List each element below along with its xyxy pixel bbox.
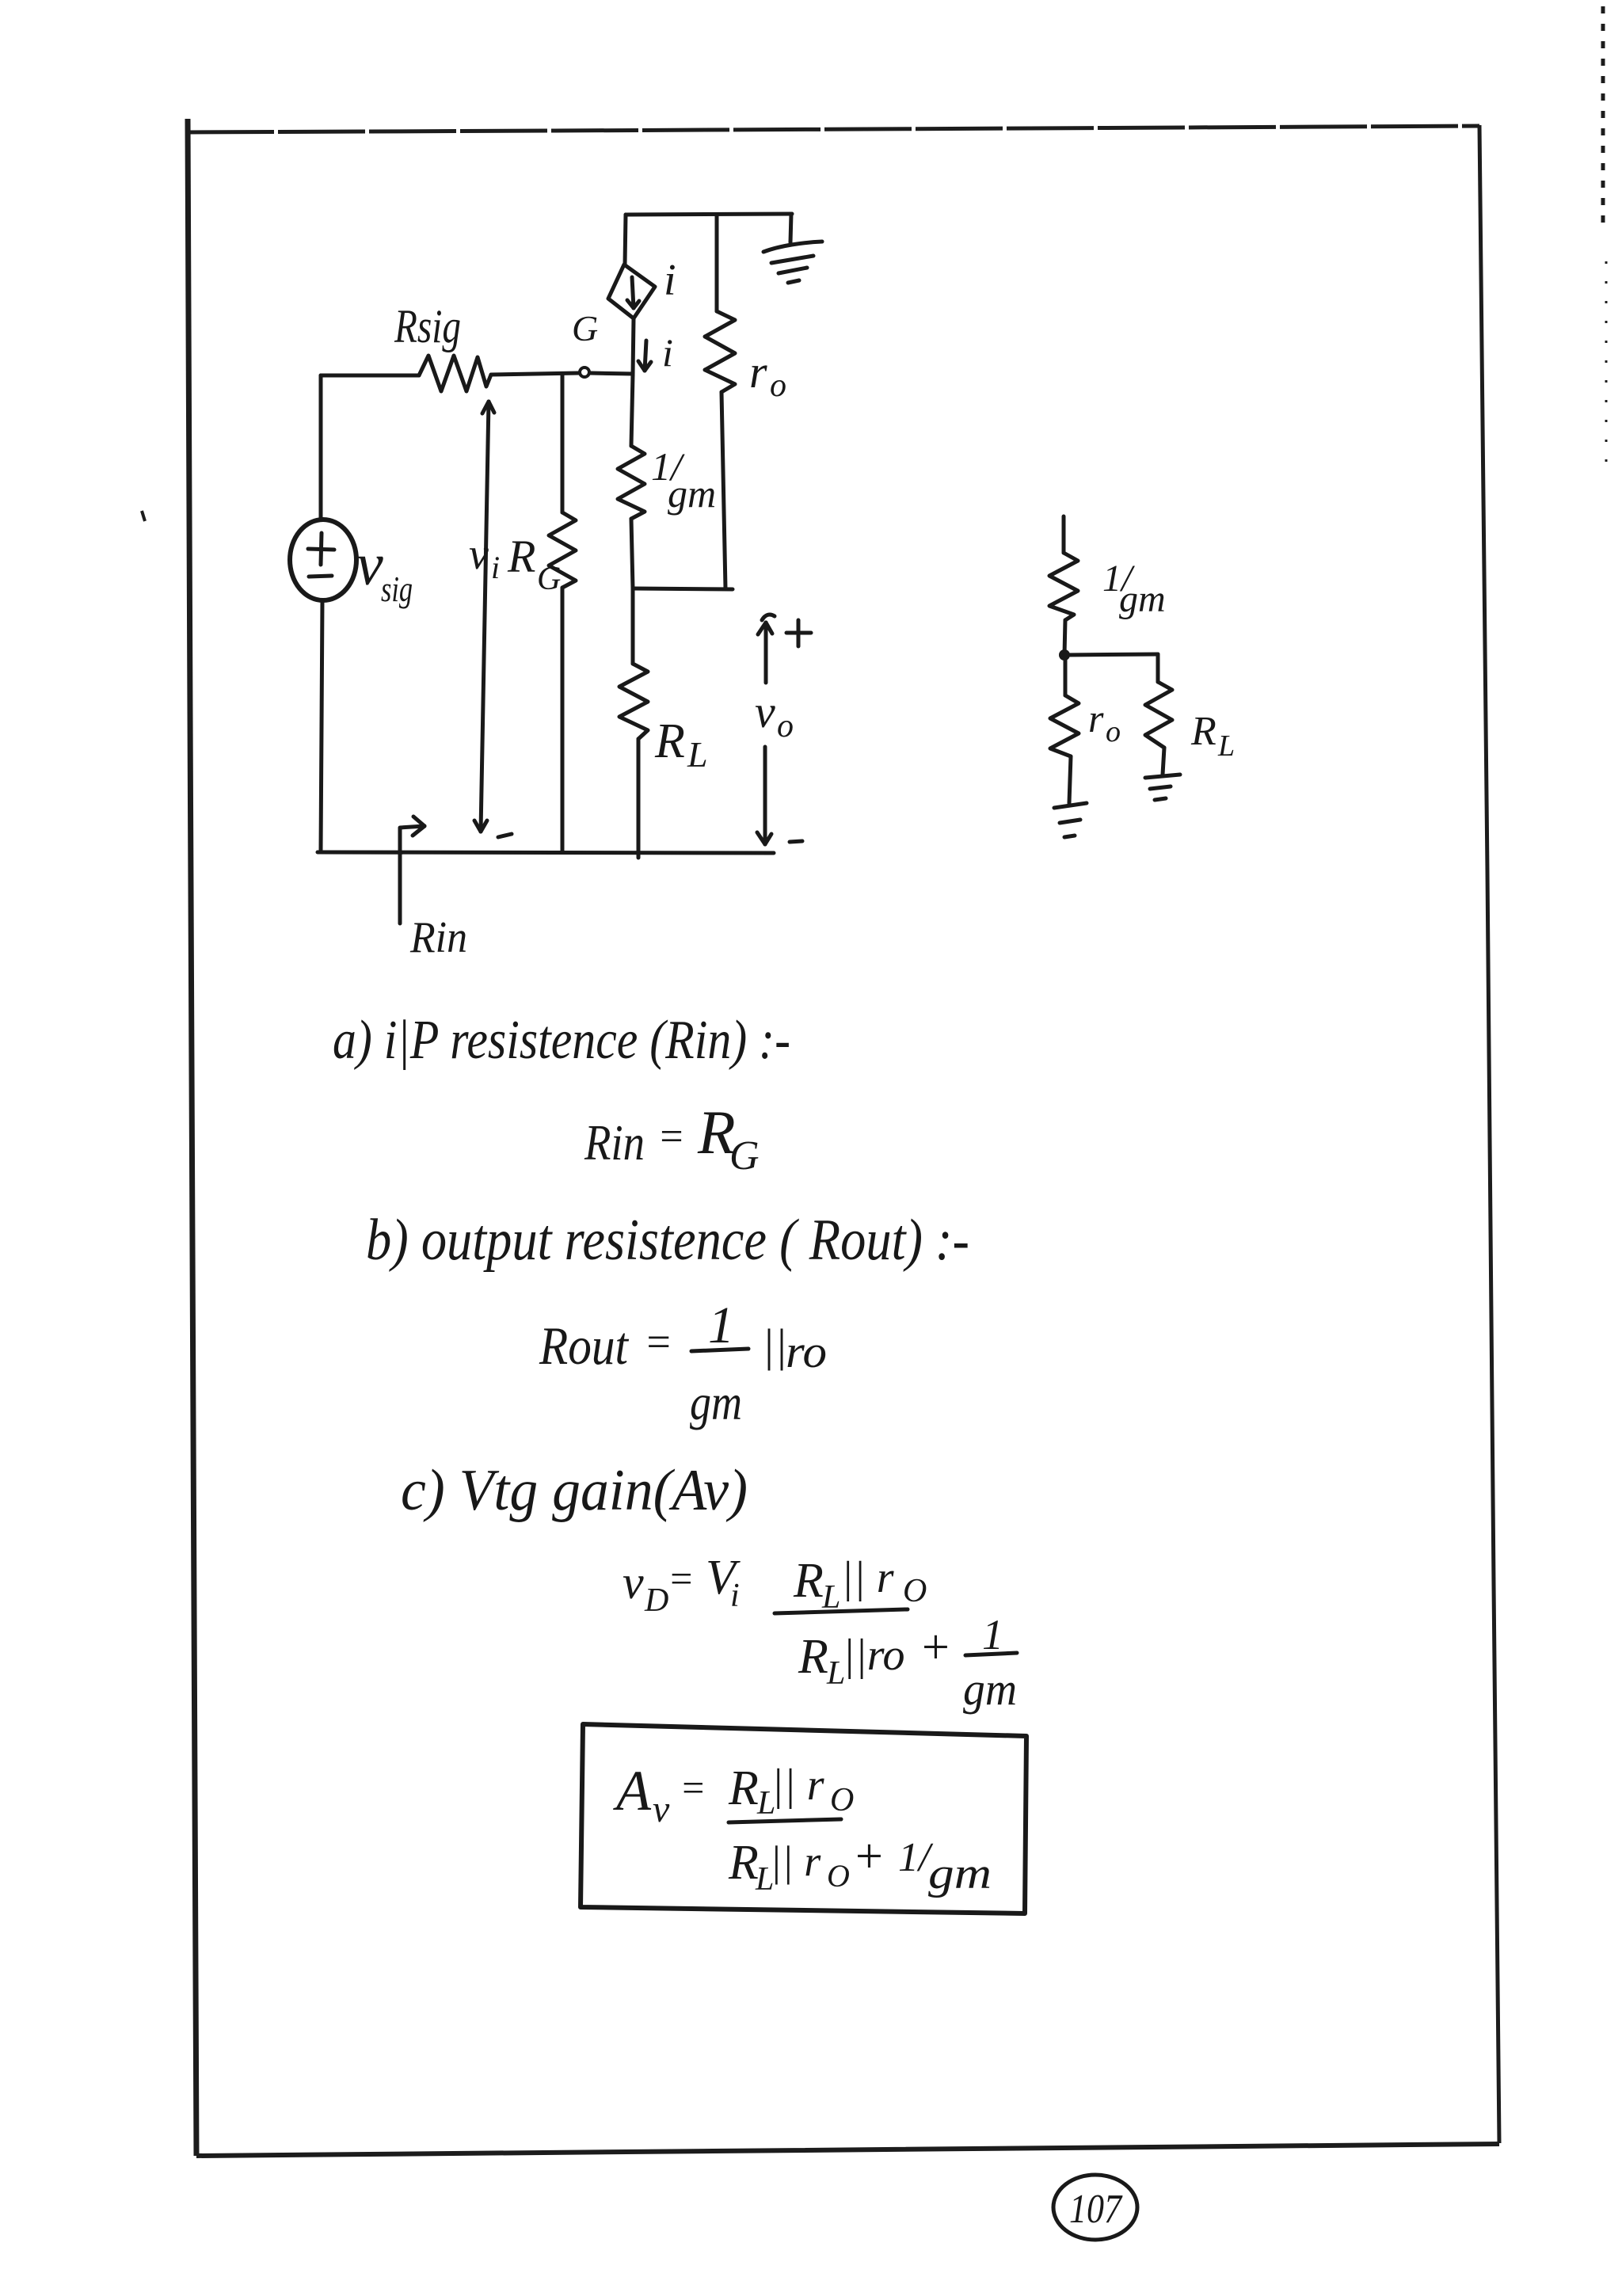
svg-text:gm: gm bbox=[668, 471, 716, 516]
svg-text:G: G bbox=[537, 561, 561, 597]
svg-text:r: r bbox=[749, 346, 767, 398]
svg-text:a) i|P resistence (Rin) :-: a) i|P resistence (Rin) :- bbox=[333, 1010, 790, 1071]
svg-text:=: = bbox=[668, 1556, 695, 1601]
svg-text:ro: ro bbox=[786, 1326, 827, 1377]
ground (top right) bbox=[790, 214, 791, 242]
node G terminal circle bbox=[580, 367, 589, 377]
svg-text:G: G bbox=[729, 1133, 760, 1178]
svg-text:v: v bbox=[755, 686, 775, 737]
svg-text:R: R bbox=[798, 1630, 828, 1684]
svg-text:r: r bbox=[1088, 696, 1104, 741]
svg-text:Rout: Rout bbox=[539, 1316, 630, 1376]
svg-text:L: L bbox=[687, 734, 708, 775]
resistor 1/gm (sub-circuit) bbox=[1049, 553, 1078, 620]
resistor 1/gm bbox=[631, 375, 633, 446]
boxed result Av bbox=[581, 1724, 1026, 1913]
wire top stem bbox=[1062, 516, 1066, 553]
svg-text:Rin: Rin bbox=[584, 1114, 645, 1171]
wire junction horizontal bbox=[1064, 654, 1158, 655]
resistor RG bbox=[561, 374, 565, 512]
resistor Rsig bbox=[321, 374, 419, 378]
svg-text:v: v bbox=[653, 1788, 670, 1830]
svg-text:R: R bbox=[793, 1554, 824, 1608]
svg-text:O: O bbox=[827, 1858, 850, 1894]
svg-text:R: R bbox=[654, 714, 685, 768]
svg-text:v: v bbox=[469, 530, 489, 579]
svg-text:1: 1 bbox=[708, 1296, 734, 1354]
arrow vi (input voltage) bbox=[481, 402, 489, 832]
svg-text:Rin: Rin bbox=[409, 913, 467, 962]
svg-text:i: i bbox=[730, 1578, 740, 1614]
svg-text:+: + bbox=[852, 1830, 885, 1883]
resistor RL (sub-circuit) bbox=[1145, 682, 1172, 748]
page number 107 bbox=[1053, 2175, 1137, 2240]
resistor ro bbox=[715, 215, 719, 311]
svg-text:v: v bbox=[356, 531, 383, 598]
arrow i (drain current) bbox=[645, 341, 646, 371]
svg-text:gm: gm bbox=[690, 1374, 742, 1430]
svg-text:R: R bbox=[507, 531, 535, 582]
svg-text:Rsig: Rsig bbox=[394, 300, 461, 352]
svg-text:||ro: ||ro bbox=[843, 1631, 905, 1680]
svg-text:R: R bbox=[728, 1836, 759, 1890]
ground (below ro) bbox=[1054, 803, 1087, 808]
svg-text:i: i bbox=[662, 330, 673, 375]
current source I (diamond) bbox=[608, 265, 655, 318]
wire current source to node bbox=[633, 318, 634, 375]
svg-text:A: A bbox=[613, 1759, 652, 1822]
wire top-left drop to current source bbox=[625, 215, 626, 265]
svg-text:G: G bbox=[572, 308, 598, 348]
svg-text:o: o bbox=[1106, 715, 1121, 748]
svg-text:R: R bbox=[1190, 709, 1216, 754]
svg-text:v: v bbox=[623, 1556, 644, 1609]
wire below Vsig bbox=[321, 600, 322, 852]
svg-text:=: = bbox=[680, 1765, 706, 1810]
ground (below RL) bbox=[1145, 775, 1180, 778]
svg-text:i: i bbox=[491, 550, 500, 585]
svg-text:||: || bbox=[762, 1319, 787, 1371]
svg-text:gm: gm bbox=[963, 1663, 1017, 1715]
wire left rail (source branch) bbox=[319, 375, 323, 520]
arrow Rin bbox=[400, 826, 425, 923]
svg-text:c) Vtg gain(Av): c) Vtg gain(Av) bbox=[401, 1458, 748, 1523]
resistor ro (sub-circuit) bbox=[1064, 655, 1068, 695]
svg-text:o: o bbox=[777, 708, 794, 744]
arrow vo minus bbox=[763, 747, 767, 844]
svg-text:|| r: || r bbox=[770, 1837, 821, 1885]
wire bottom rail bbox=[318, 852, 774, 853]
svg-text:1: 1 bbox=[982, 1611, 1003, 1658]
svg-text:|| r: || r bbox=[771, 1761, 824, 1810]
svg-text:o: o bbox=[770, 367, 786, 404]
wire source-node junction bbox=[633, 588, 733, 589]
node junction dot bbox=[1059, 649, 1070, 661]
svg-text:b) output resistence ( Rout) :: b) output resistence ( Rout) :- bbox=[366, 1208, 969, 1273]
svg-text:sig: sig bbox=[381, 569, 413, 609]
svg-text:D: D bbox=[644, 1582, 668, 1619]
svg-text:O: O bbox=[830, 1782, 854, 1818]
arrow vo plus bbox=[764, 623, 768, 683]
svg-text:gm: gm bbox=[928, 1849, 992, 1898]
resistor RL bbox=[631, 588, 635, 664]
svg-text:L: L bbox=[1217, 729, 1235, 763]
svg-text:gm: gm bbox=[1119, 578, 1166, 620]
svg-text:+: + bbox=[919, 1620, 952, 1674]
svg-text:|| r: || r bbox=[841, 1553, 894, 1602]
svg-text:107: 107 bbox=[1069, 2187, 1123, 2232]
svg-text:=: = bbox=[644, 1318, 672, 1365]
svg-text:R: R bbox=[728, 1761, 759, 1815]
source Vsig bbox=[290, 520, 356, 600]
labels of main circuit bbox=[356, 256, 794, 962]
wire top rail bbox=[626, 214, 792, 215]
svg-text:O: O bbox=[903, 1573, 927, 1609]
svg-text:i: i bbox=[664, 256, 676, 305]
svg-text:=: = bbox=[657, 1114, 685, 1159]
wire to RL (sub-circuit) bbox=[1156, 654, 1160, 682]
node G wire bbox=[491, 373, 579, 375]
